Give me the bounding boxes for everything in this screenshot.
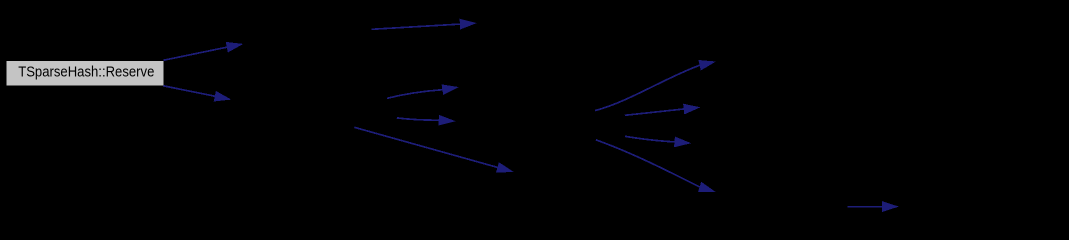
svg-text:TSparseHash::Reserve: TSparseHash::Reserve — [18, 64, 154, 81]
edge E11: bottom right short — [848, 201, 899, 212]
edge E3: top middle — [372, 19, 477, 30]
edge E9: fan third — [625, 136, 691, 147]
edge E10: fan bottom curve — [596, 140, 716, 192]
edge E1: Reserve -> node2 (upper) — [163, 42, 243, 60]
edge E8: fan second — [625, 104, 701, 116]
edge E5: middle short horizontal — [397, 115, 456, 126]
edge E2: Reserve -> node3 (lower) — [163, 86, 231, 102]
edge E6: long diagonal down — [354, 127, 513, 172]
edge E7: fan top curve — [595, 60, 716, 111]
node TSparseHash::Reserve — [6, 61, 163, 86]
edge E4: middle upper — [387, 84, 459, 98]
